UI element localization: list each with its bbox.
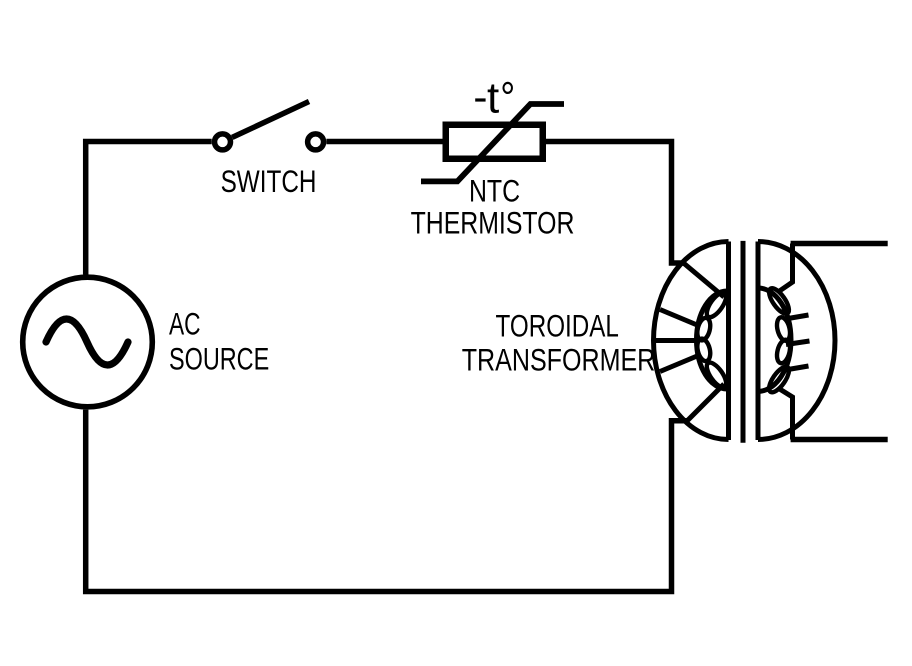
svg-text:TOROIDAL: TOROIDAL: [496, 309, 619, 344]
svg-text:t: t: [487, 74, 499, 123]
svg-text:°: °: [500, 73, 515, 123]
wire thermistor to transformer, right rail upper: [545, 142, 684, 264]
secondary winding tap stub 1: [785, 315, 809, 319]
wire bottom loop: left rail lower, bottom rail, right rail lower: [86, 410, 688, 592]
svg-text:SOURCE: SOURCE: [169, 341, 269, 376]
svg-text:TRANSFORMER: TRANSFORMER: [462, 343, 656, 378]
thermistor body rectangle: [446, 125, 543, 159]
transformer core line center: [741, 241, 746, 443]
primary winding loop 1: [703, 289, 729, 320]
transformer core line left (primary flat side): [726, 242, 731, 441]
primary winding spoke 1: [684, 263, 725, 297]
svg-text:THERMISTOR: THERMISTOR: [411, 206, 575, 242]
secondary winding loop 3: [775, 338, 792, 364]
secondary terminal rail bottom: [791, 437, 888, 443]
transformer primary inner arc: [696, 291, 727, 389]
transformer primary outer arc: [654, 242, 729, 440]
secondary winding loop 1: [765, 285, 792, 316]
AC source sine wave: [46, 319, 128, 365]
label -t° hyphen: [475, 98, 485, 101]
primary winding loop 3: [695, 337, 712, 362]
switch contact circle right: [308, 134, 324, 150]
svg-text:SWITCH: SWITCH: [221, 164, 317, 199]
secondary terminal stub top: [778, 244, 793, 293]
transformer core line right (secondary flat side): [756, 242, 761, 441]
secondary winding loop 2: [775, 316, 792, 342]
transformer secondary outer arc: [758, 242, 835, 440]
secondary winding tap stub 3: [785, 366, 809, 370]
svg-text:AC: AC: [169, 306, 201, 342]
secondary terminal stub bottom: [778, 388, 793, 440]
primary winding loop 4: [703, 360, 729, 391]
primary winding spoke 4: [660, 355, 700, 372]
wire top-left rail and left rail upper: [86, 142, 212, 275]
AC source circle: [23, 277, 153, 407]
svg-text:NTC: NTC: [469, 174, 520, 210]
primary winding loop 2: [695, 316, 712, 341]
secondary winding loop 4: [765, 364, 792, 395]
primary winding spoke 3: [654, 338, 697, 343]
secondary winding tap stub 2: [786, 341, 810, 345]
switch contact circle left: [215, 134, 231, 150]
secondary terminal rail top: [791, 241, 888, 247]
thermistor strike line: [421, 104, 564, 181]
switch lever: [232, 102, 309, 138]
transformer secondary inner arc: [758, 288, 791, 391]
wire switch to thermistor: [326, 139, 444, 145]
primary winding spoke 2: [660, 310, 700, 327]
primary winding spoke 5: [688, 384, 725, 421]
